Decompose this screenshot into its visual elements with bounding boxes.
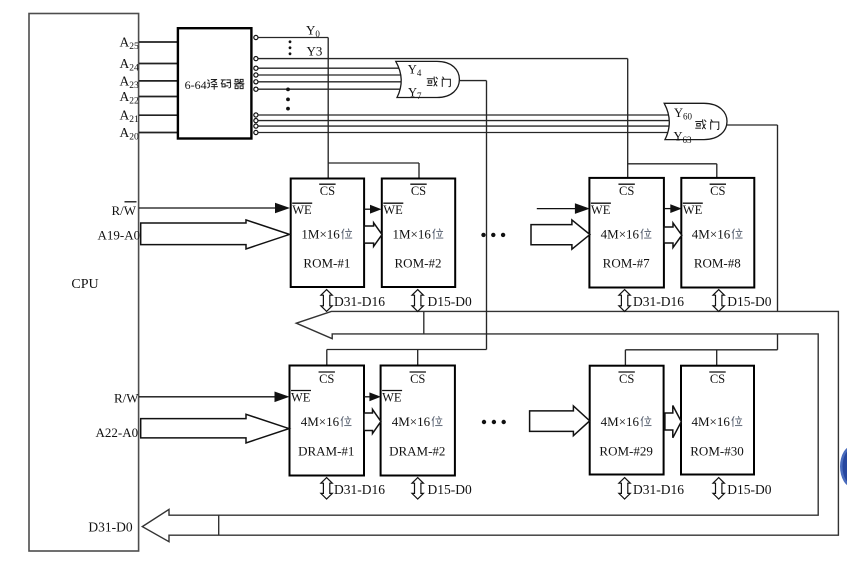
wire G2 output vertical upper part — [777, 125, 779, 311]
row1 data arrow D15-D0 below chip at x418 — [412, 290, 423, 312]
blue circular artifact at right edge — [840, 446, 847, 488]
wire Y3 from decoder — [258, 58, 628, 60]
or-gate G1 (Y4-Y7) — [396, 61, 460, 97]
svg-text:CS: CS — [411, 184, 426, 198]
svg-text:4M×16: 4M×16 — [601, 227, 640, 242]
wire Y6 decoder to or-gate G1 — [258, 81, 401, 83]
wire Y0 from decoder — [258, 37, 328, 39]
svg-text:ROM-#30: ROM-#30 — [690, 443, 743, 458]
svg-text:CS: CS — [619, 372, 634, 386]
svg-text:D15-D0: D15-D0 — [727, 294, 771, 309]
wire branch down to ROM-#30 CS — [716, 350, 718, 366]
wire Y0 branch horizontal to ROM-#2 — [328, 162, 419, 164]
CPU box — [29, 14, 139, 552]
svg-text:4M×16: 4M×16 — [692, 227, 731, 242]
svg-text:ROM-#2: ROM-#2 — [395, 255, 442, 270]
row2 data arrow D15-D0 below chip at x418 — [412, 478, 423, 499]
wire Y60 decoder to or-gate G2 — [258, 114, 668, 116]
svg-text:D15-D0: D15-D0 — [727, 482, 771, 497]
svg-text:Y3: Y3 — [307, 43, 323, 58]
row1 data arrow D15-D0 below chip at x719 — [713, 290, 724, 312]
svg-text:WE: WE — [383, 203, 403, 217]
svg-text:WE: WE — [591, 203, 611, 217]
row2 data arrow D31-D16 below chip at x327 — [321, 478, 332, 499]
wire branch down to DRAM-#1 CS — [326, 350, 328, 366]
svg-text:4M×16: 4M×16 — [692, 414, 731, 429]
decoder 6-64 box — [178, 28, 252, 138]
wire Y7 decoder to or-gate G1 — [258, 88, 401, 90]
wire Y3 branch down to ROM-#8 CS — [716, 164, 718, 178]
decoder output inverter circles — [254, 35, 258, 39]
svg-text:ROM-#7: ROM-#7 — [603, 255, 650, 270]
wire A20 CPU to decoder — [139, 132, 179, 134]
memory chip ROM-#30 box — [681, 366, 754, 475]
address bus block arrow A22-A0 into DRAM-#1 — [141, 414, 289, 443]
ellipsis dots row 2 — [482, 420, 486, 424]
svg-text:DRAM-#1: DRAM-#1 — [298, 443, 354, 458]
svg-text:CS: CS — [710, 372, 725, 386]
svg-text:1M×16: 1M×16 — [393, 227, 432, 242]
svg-text:WE: WE — [292, 203, 312, 217]
svg-text:CS: CS — [619, 184, 634, 198]
svg-text:4M×16: 4M×16 — [392, 414, 431, 429]
ellipsis dots between Y7 and Y60 group — [286, 88, 290, 92]
wire G1 output vertical down to DRAM CS bus — [486, 81, 488, 350]
wire branch down to DRAM-#2 CS — [417, 350, 419, 366]
address block arrow into ROM-#29 — [530, 406, 590, 436]
or-gate G2 (Y60-Y63) — [664, 103, 727, 139]
address pass-through block arrow ROM-#1 to ROM-#2 — [364, 223, 382, 247]
svg-text:D31-D16: D31-D16 — [633, 294, 684, 309]
svg-text:ROM-#29: ROM-#29 — [599, 443, 652, 458]
wire G2 output vertical lower part — [777, 334, 779, 350]
svg-text:4M×16: 4M×16 — [301, 414, 340, 429]
wire A21 CPU to decoder — [139, 114, 179, 116]
wire WE into ROM-#7 arrowhead — [537, 208, 577, 210]
wire Y63 decoder to or-gate G2 — [258, 132, 668, 134]
wire Y0 vertical down to ROM-#1 CS — [327, 38, 329, 179]
svg-text:D31-D16: D31-D16 — [334, 482, 385, 497]
svg-text:6-64: 6-64 — [185, 78, 207, 92]
address bus block arrow A19-A0 into ROM-#1 — [141, 220, 290, 249]
memory chip DRAM-#2 box — [381, 366, 455, 476]
wire DRAM-#1/#2 CS bus horizontal — [327, 349, 487, 351]
wire A22 CPU to decoder — [139, 96, 179, 98]
memory chip ROM-#29 box — [590, 366, 664, 475]
memory chip ROM-#2 box — [382, 179, 455, 288]
row1 data arrow D31-D16 below chip at x327 — [321, 290, 332, 312]
svg-text:R/W: R/W — [114, 391, 139, 406]
wire Y3 branch horizontal to ROM-#8 — [628, 163, 717, 165]
address pass-through block arrow ROM-#7 to ROM-#8 — [664, 223, 682, 248]
or-gate G2 label huo-men — [696, 120, 706, 129]
svg-text:WE: WE — [382, 390, 402, 404]
address pass-through block arrow DRAM-#1 to DRAM-#2 — [364, 409, 381, 433]
memory chip ROM-#1 box — [291, 179, 364, 288]
svg-text:DRAM-#2: DRAM-#2 — [389, 443, 445, 458]
row1 data arrow D31-D16 below chip at x625 — [619, 290, 630, 312]
wire WE pass-through ROM-#1 to ROM-#2 arrowhead — [364, 208, 372, 210]
wire WE pass-through DRAM-#1 to DRAM-#2 arrowhead — [364, 396, 371, 398]
wire Y61 decoder to or-gate G2 — [258, 120, 668, 122]
ellipsis dots row 1 — [481, 233, 485, 237]
address block arrow into ROM-#7 — [531, 220, 590, 249]
wire WE pass-through ROM-#7 to ROM-#8 arrowhead — [664, 208, 672, 210]
memory chip DRAM-#1 box — [290, 366, 365, 476]
svg-text:ROM-#8: ROM-#8 — [694, 255, 741, 270]
or-gate G1 label huo-men — [427, 77, 437, 86]
svg-text:A19-A0: A19-A0 — [98, 227, 141, 242]
wire A24 CPU to decoder — [139, 63, 179, 65]
wire R/W to ROM-#1 WE with arrowhead — [139, 207, 277, 209]
svg-text:CPU: CPU — [71, 277, 98, 292]
svg-text:4M×16: 4M×16 — [601, 414, 640, 429]
svg-text:A22-A0: A22-A0 — [96, 425, 139, 440]
wire branch down to ROM-#29 CS — [624, 350, 626, 366]
wire Y0 branch down to ROM-#2 CS — [418, 163, 420, 179]
bus butt joint on ROM row shaft — [423, 311, 425, 334]
row2 data arrow D15-D0 below chip at x719 — [713, 478, 724, 499]
address pass-through block arrow ROM-#29 to ROM-#30 — [665, 406, 681, 438]
svg-text:CS: CS — [410, 372, 425, 386]
row2 data arrow D31-D16 below chip at x625 — [619, 478, 630, 499]
wire Y62 decoder to or-gate G2 — [258, 125, 668, 127]
svg-text:CS: CS — [320, 184, 335, 198]
svg-text:WE: WE — [291, 390, 311, 404]
memory chip ROM-#8 box — [681, 178, 754, 288]
wire R/W to DRAM-#1 WE with arrowhead — [139, 396, 277, 398]
wire ROM-#29/#30 CS bus horizontal — [625, 349, 777, 351]
wire Y4 decoder to or-gate G1 — [258, 67, 401, 69]
svg-text:D15-D0: D15-D0 — [428, 482, 472, 497]
bus butt joint on bottom shaft — [218, 515, 220, 535]
svg-text:D31-D16: D31-D16 — [633, 482, 684, 497]
wire or-gate G1 output horizontal — [459, 80, 487, 82]
svg-text:D15-D0: D15-D0 — [428, 294, 472, 309]
svg-text:WE: WE — [683, 203, 703, 217]
svg-text:R/W: R/W — [112, 203, 137, 218]
memory chip ROM-#7 box — [589, 178, 664, 288]
wire or-gate G2 output horizontal — [727, 124, 778, 126]
wire Y5 decoder to or-gate G1 — [258, 74, 401, 76]
svg-text:CS: CS — [710, 184, 725, 198]
svg-text:D31-D0: D31-D0 — [88, 520, 132, 535]
svg-text:ROM-#1: ROM-#1 — [303, 255, 350, 270]
svg-text:CS: CS — [319, 372, 334, 386]
wire A23 CPU to decoder — [139, 80, 179, 82]
wire Y3 vertical down to ROM-#7 CS — [627, 59, 629, 178]
svg-text:D31-D16: D31-D16 — [334, 294, 385, 309]
data bus U-channel: ROM row return bus, right-side verticals, bottom D31-D0 bus into CPU — [142, 311, 838, 541]
ellipsis dots between Y0 and Y3 — [289, 40, 292, 43]
wire A25 CPU to decoder — [139, 41, 179, 43]
svg-text:1M×16: 1M×16 — [301, 227, 340, 242]
